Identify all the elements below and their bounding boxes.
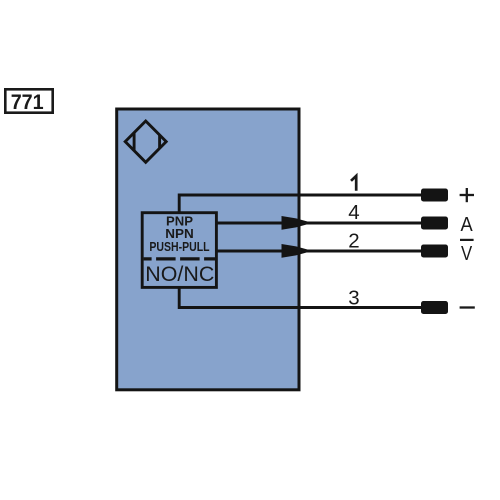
pin 3 terminal (421, 301, 448, 314)
svg-text:PUSH-PULL: PUSH-PULL (149, 239, 209, 254)
dashed divider inside output stage box (144, 257, 215, 260)
wire 4 (to pin 4) (216, 222, 421, 225)
svg-text:A: A (461, 213, 473, 236)
overline of V (460, 239, 474, 241)
svg-text:NO/NC: NO/NC (145, 262, 214, 286)
pin 2 terminal (421, 245, 448, 258)
arrowhead on wire 2 (282, 244, 313, 258)
wire 3 (from bottom of output stage to pin 3) (179, 287, 421, 307)
wire 1 (from top of output stage to pin 1) (179, 195, 421, 213)
output stage box (PNP/NPN/PUSH-PULL | NO/NC) (142, 213, 216, 288)
wire 2 (to pin 2) (216, 250, 421, 253)
pin 1 terminal (421, 189, 448, 202)
minus symbol (supply -) (460, 306, 475, 308)
plus symbol (supply +) (460, 188, 474, 202)
figure number box 771 (5, 89, 52, 114)
svg-text:771: 771 (11, 91, 44, 114)
svg-text:3: 3 (348, 287, 359, 310)
sensor body (blue housing) (117, 109, 299, 390)
wire number 1 (351, 176, 356, 191)
sensor symbol: diamond with chords (125, 121, 166, 162)
svg-text:2: 2 (348, 230, 359, 253)
svg-text:V: V (461, 242, 472, 265)
pin 4 terminal (421, 217, 448, 230)
arrowhead on wire 4 (282, 216, 313, 230)
svg-text:4: 4 (348, 201, 359, 224)
